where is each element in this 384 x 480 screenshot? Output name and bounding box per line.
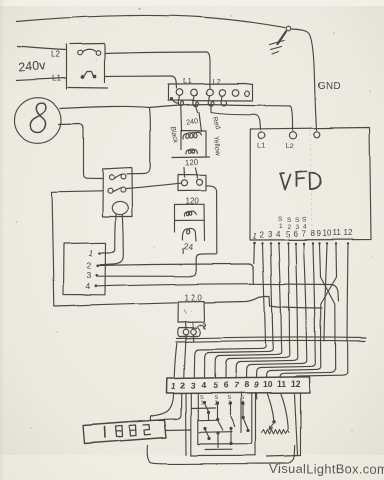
wire top ground rail	[17, 15, 285, 27]
wire from junction box top right	[205, 296, 323, 308]
VFD terminal L1	[258, 132, 265, 139]
VFD pin numbers 1-12	[252, 229, 353, 241]
TB1 terminal 6	[245, 91, 250, 96]
wire TB1-3 to VFD L1	[211, 112, 261, 130]
potentiometer R1	[262, 430, 290, 435]
fan wire to bottom terminal 5	[215, 341, 282, 377]
transformer T1 240 primary lead left	[180, 112, 183, 131]
svg-text:8: 8	[244, 379, 249, 389]
wire junction box lead b	[192, 322, 195, 330]
svg-text:GND: GND	[318, 81, 341, 92]
VFD pin labels S1 S2 S3 S4	[278, 216, 307, 231]
terminal strip TB1	[168, 84, 253, 101]
relay K1 contact 2	[108, 187, 126, 193]
svg-text:3: 3	[268, 230, 273, 239]
TB1 left corner junction dot	[170, 97, 173, 100]
breaker contact L2	[78, 49, 101, 55]
breaker CB1 box	[67, 44, 109, 90]
wire TB3-2 down to display corner	[164, 394, 181, 419]
enclosure box (low-voltage section)	[52, 191, 177, 307]
bottom strip TB3	[167, 377, 310, 394]
svg-text:L2: L2	[212, 77, 220, 86]
wire breaker L1 out to strip terminal 1	[105, 76, 177, 88]
switch S2 chain	[215, 402, 222, 448]
fan wire to bottom terminal 11	[280, 341, 335, 378]
node ground junction	[286, 26, 291, 31]
svg-text:8: 8	[311, 229, 316, 238]
wire junction box lead a	[184, 322, 187, 330]
switch bank bottom edges	[191, 444, 256, 456]
wire L2 supply	[18, 47, 66, 51]
svg-text:2: 2	[260, 231, 265, 240]
bus line lower	[176, 340, 365, 342]
svg-text:4: 4	[276, 230, 281, 239]
capsule terminal b	[190, 329, 196, 335]
T2 primary coil	[184, 211, 196, 216]
TB2 pin 3 dot	[95, 274, 98, 277]
transformer T1 240 primary lead right	[199, 112, 202, 131]
outer box right	[267, 393, 301, 457]
fan wire to bottom terminal 8	[246, 341, 307, 377]
wire TB3-9 stub	[256, 394, 258, 399]
transformer T1 primary coil	[183, 132, 202, 139]
svg-text:4: 4	[201, 380, 206, 390]
display digit 1	[104, 427, 107, 438]
fan wire to bottom terminal 9	[256, 341, 315, 377]
wire VFD pin 1 down	[253, 245, 256, 264]
wire TB3-2b down	[185, 394, 188, 455]
svg-text:7: 7	[301, 230, 306, 239]
connector J1 box	[178, 175, 206, 191]
wire TB2-2 bundle to VFD terminal 1	[100, 264, 254, 284]
svg-text:2: 2	[87, 261, 92, 271]
TB1 terminal 5	[232, 89, 239, 96]
TB1 terminal 3	[206, 89, 213, 96]
bus line upper	[177, 337, 367, 339]
svg-text:11: 11	[277, 379, 286, 389]
VFD terminal GND	[314, 131, 320, 137]
fan wire to bottom terminal 3	[194, 341, 266, 377]
relay K1 box	[103, 168, 133, 217]
wire VFD pin 8 down	[313, 245, 315, 341]
junction box mark	[184, 309, 192, 313]
svg-text:12: 12	[291, 379, 301, 389]
svg-text:L1: L1	[183, 76, 191, 85]
breaker contact L1	[81, 72, 96, 79]
VFD U1 box	[250, 128, 371, 241]
control box TB2	[63, 243, 106, 295]
svg-text:24: 24	[183, 241, 194, 252]
switch S3 chain	[228, 402, 234, 445]
TB1 terminal 1	[176, 89, 183, 96]
wire motor top lead to VFD L2	[61, 104, 294, 130]
bank label S1	[200, 395, 204, 407]
wire bus to bottom strip 1	[174, 344, 177, 378]
svg-text:1: 1	[279, 223, 283, 230]
wire L1 supply	[17, 78, 66, 81]
TB2 pin 2 dot	[96, 264, 99, 267]
wire TB3-10 to pot wiper dot	[268, 394, 274, 420]
wire VFD pin 12 down	[346, 245, 349, 342]
fan wire to bottom terminal 4	[204, 341, 273, 377]
wire node to VFD gnd terminal	[292, 29, 318, 130]
switch S1 chain	[202, 401, 210, 440]
svg-text:1 2.0: 1 2.0	[184, 293, 202, 302]
TB1 terminal 2	[191, 89, 198, 96]
svg-text:240: 240	[185, 116, 198, 127]
TB2 pin 1 dot	[98, 252, 101, 255]
display digit 2	[144, 425, 152, 435]
transformer T2 24v section box	[175, 204, 205, 240]
wire TB2-3 to T2 secondary	[99, 254, 217, 276]
wire VFD pin 7 down	[304, 245, 307, 341]
svg-text:S: S	[278, 216, 283, 223]
transformer T1 secondary coil	[186, 149, 197, 154]
transformer T1 core box	[172, 130, 210, 158]
svg-text:1: 1	[200, 401, 203, 407]
junction box 120	[178, 301, 205, 322]
wire motor bottom lead to relay contact	[59, 124, 102, 179]
VFD pin 1 dot	[253, 242, 256, 245]
wire VFD pin 3 down	[271, 245, 273, 341]
wire relay to J1	[127, 183, 182, 188]
ground	[270, 32, 287, 55]
svg-text:4: 4	[86, 282, 91, 292]
J1 terminal a	[182, 180, 188, 186]
wire VFD pin 9 down with crossover	[320, 245, 336, 341]
svg-text:10: 10	[323, 229, 332, 238]
svg-text:S: S	[295, 217, 300, 224]
svg-text:L1: L1	[52, 74, 61, 83]
svg-text:L1: L1	[257, 141, 265, 150]
wire capsule to bus b	[192, 335, 194, 342]
bank label S3	[227, 396, 231, 408]
svg-text:VisualLightBox.com: VisualLightBox.com	[270, 462, 384, 477]
wire VFD pin 4 down	[279, 245, 282, 341]
svg-text:6: 6	[293, 230, 298, 239]
wire loop under TB1-3	[208, 96, 214, 113]
T1 secondary lead left	[183, 168, 186, 178]
display digit 8a	[116, 426, 123, 437]
switch bank inner top edge	[191, 407, 215, 410]
bank label S2	[214, 396, 218, 408]
fan wire to bottom terminal 7	[236, 341, 298, 377]
svg-text:2: 2	[180, 381, 185, 391]
wire branch from L2 feed down to relay	[127, 109, 150, 174]
bank jumper a	[198, 419, 216, 421]
fan wire to bottom terminal 6	[225, 341, 290, 377]
bank jumper b	[199, 431, 232, 434]
svg-text:5: 5	[286, 230, 291, 239]
wire breaker L2 out to strip terminal 3	[105, 52, 210, 88]
svg-text:3: 3	[87, 271, 92, 281]
wire TB2-4 long run to crossover	[98, 284, 339, 301]
wire VFD pin 11 down with crossover	[321, 245, 337, 341]
wire K1 coil lead 2	[100, 214, 124, 264]
switch S4 chain	[241, 402, 249, 432]
wire TB3-1 dome to display	[151, 394, 174, 421]
relay K1 contact 1	[109, 174, 126, 180]
fan wire to bottom terminal 12	[294, 342, 347, 378]
pot wiper dot	[272, 420, 275, 423]
wire VFD pin 2 down	[263, 245, 266, 341]
wire TB3-11 to pot end	[281, 394, 288, 429]
wire loop under TB1-4	[221, 96, 226, 105]
svg-text:11: 11	[333, 229, 342, 238]
switch bank inner box right	[241, 393, 256, 456]
svg-text:240v: 240v	[18, 59, 47, 75]
TB1 terminal 4	[219, 89, 226, 96]
wire VFD pin 10 down	[324, 245, 327, 341]
T1 secondary lead right	[196, 168, 198, 178]
svg-text:120: 120	[185, 158, 199, 168]
J1 terminal b	[197, 179, 203, 185]
svg-text:12: 12	[344, 229, 353, 238]
label 5 with squiggle	[198, 323, 206, 328]
capsule terminal a	[183, 329, 189, 335]
TB2 pin 4 dot	[95, 285, 98, 288]
wire T2 secondary lead down	[182, 249, 184, 254]
svg-text:S: S	[302, 217, 307, 224]
svg-text:10: 10	[263, 379, 273, 389]
relay K1 coil	[112, 201, 128, 214]
pot wiper arrow	[269, 423, 273, 430]
bank label S4	[241, 396, 245, 408]
wire TB1 left corner stub	[172, 99, 179, 104]
wire display to switch bank	[167, 429, 191, 432]
VFD crease line	[311, 129, 312, 238]
display digit 8b	[130, 425, 137, 436]
wire capsule to bus a	[184, 335, 186, 344]
display DS1 1882 box	[83, 420, 167, 444]
svg-text:120: 120	[186, 197, 200, 206]
svg-text:L2: L2	[286, 142, 294, 151]
VFD terminal L2	[289, 132, 296, 139]
fan wire to bottom terminal 10	[267, 341, 321, 377]
wire J1 right down mid vertical	[206, 185, 217, 253]
wire K1 coil lead 1	[102, 214, 117, 253]
connector capsule below junction box	[178, 328, 200, 337]
wire VFD pin 5 down	[288, 245, 290, 341]
switch bank inner box left	[191, 394, 198, 456]
VFD pin dots row	[261, 242, 349, 244]
wire VFD pin 6 down	[296, 245, 298, 341]
motor M1	[15, 98, 62, 144]
svg-text:L2: L2	[51, 50, 60, 59]
VFD label	[280, 172, 321, 191]
svg-text:S: S	[287, 217, 292, 224]
outer rounded enclosure bottom	[148, 446, 295, 464]
wire loop under TB1-1	[178, 96, 183, 113]
wire TB3-12 down	[295, 394, 298, 455]
TB3 pin numbers	[170, 379, 300, 392]
T2 secondary coil	[182, 228, 196, 241]
wire loop under TB1-2	[193, 96, 199, 112]
svg-text:9: 9	[317, 229, 322, 238]
wire bus to bottom strip 2	[184, 344, 185, 377]
